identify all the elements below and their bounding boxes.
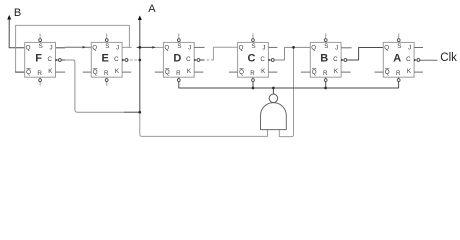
svg-text:C: C [248, 52, 256, 64]
svg-text:B: B [320, 52, 328, 64]
wire: B indicator net, F.Q to up-arrow [9, 20, 25, 48]
svg-text:Q: Q [93, 69, 98, 76]
svg-text:F: F [35, 52, 42, 64]
wire: NAND right input from B.Q junction [279, 47, 293, 136]
svg-text:S: S [324, 43, 328, 50]
wire: C.Q to D.C staircase [200, 47, 238, 60]
svg-text:C: C [333, 56, 338, 63]
pin stub B J stub [341, 47, 352, 49]
flip-flop D (JK) [163, 34, 200, 82]
pin stub B K stub [341, 71, 351, 73]
svg-text:D: D [173, 52, 181, 64]
pin stub D J stub [194, 46, 204, 48]
flip-flop A (JK) [383, 34, 420, 82]
svg-text:Q: Q [311, 44, 316, 51]
flip-flop F (JK) [25, 34, 62, 86]
svg-text:R: R [396, 70, 401, 77]
flip-flop E (JK) [91, 34, 128, 86]
svg-text:E: E [102, 52, 109, 64]
output indicator arrow A [138, 15, 142, 20]
wire: horizontal joining F.C branch to node A vertical [124, 111, 140, 113]
flip-flop C (JK) [238, 34, 275, 82]
pin stub D K stub [194, 71, 203, 73]
svg-text:B: B [14, 7, 21, 19]
svg-text:S: S [105, 43, 109, 50]
svg-text:Q: Q [26, 69, 31, 76]
svg-text:S: S [39, 43, 43, 50]
arrowhead on D.Q wire [152, 46, 155, 49]
pin stub A J stub [414, 47, 423, 49]
svg-text:J: J [408, 44, 411, 51]
arrowhead on E.Q wire [83, 46, 86, 49]
pin stub C Qbar stub [229, 71, 238, 73]
svg-text:Q: Q [26, 44, 31, 51]
pin stub C J stub [268, 46, 277, 48]
NAND gate U1 (inverted output pointing up) [261, 94, 287, 130]
wire: F.Qbar to E.J feedback (left vertical, top line, drop at x129.4) [15, 25, 129, 72]
svg-text:J: J [49, 44, 52, 51]
flip-flop B (JK) [310, 34, 347, 82]
svg-text:Q: Q [384, 44, 389, 51]
svg-text:Q: Q [385, 69, 390, 76]
svg-text:A: A [393, 52, 401, 64]
svg-text:Q: Q [165, 69, 170, 76]
svg-text:C: C [260, 56, 265, 63]
svg-text:A: A [148, 3, 156, 15]
pin stub D Qbar stub [155, 71, 164, 73]
svg-text:J: J [262, 44, 265, 51]
pin stub E Qbar stub [83, 71, 92, 73]
pin stub F K stub [56, 71, 66, 73]
junction dot NAND output junction [272, 87, 275, 90]
svg-text:R: R [250, 70, 255, 77]
junction dot node A / F.C-NAND junction [138, 111, 141, 114]
svg-text:Q: Q [92, 44, 97, 51]
junction dot B.R junction [324, 87, 327, 90]
svg-text:J: J [188, 44, 191, 51]
pin stub B Qbar stub [301, 71, 310, 73]
junction dot node A / E.J-D.Q junction [138, 46, 141, 49]
junction dot B.Q / NAND input junction [292, 46, 295, 49]
svg-text:Q: Q [312, 69, 317, 76]
svg-text:R: R [176, 70, 181, 77]
pin stub A Qbar stub [375, 71, 384, 73]
wire: A.Q to B.C staircase [347, 48, 384, 61]
pin stub C K stub [268, 71, 277, 73]
svg-text:Q: Q [164, 44, 169, 51]
svg-text:Q: Q [239, 69, 244, 76]
svg-text:R: R [323, 70, 328, 77]
wire: E.Q to F.J [56, 46, 92, 49]
wire: E.C branch from node A vertical [126, 59, 140, 61]
svg-text:C: C [186, 56, 191, 63]
junction dot C.R junction [252, 87, 255, 90]
svg-text:Clk: Clk [440, 52, 457, 64]
junction dot node A / E.C junction [138, 59, 141, 62]
svg-text:Q: Q [239, 44, 244, 51]
wire: F.C clock branch (elbow down to y112.2 row) [61, 60, 124, 112]
svg-text:S: S [252, 43, 256, 50]
svg-text:R: R [37, 70, 42, 77]
pin stub A K stub [414, 71, 423, 73]
svg-text:R: R [104, 70, 109, 77]
node A vertical wire (indicator arrow down to junction y112.2) [139, 19, 141, 112]
svg-text:S: S [177, 43, 181, 50]
wire: node A down to NAND left input [140, 112, 268, 136]
svg-text:S: S [397, 43, 401, 50]
wire: B.Q to C.C staircase [274, 47, 310, 60]
svg-text:J: J [116, 44, 119, 51]
pin stub E K stub [122, 71, 131, 73]
wire: D.Q to E.J junction (node A horizontal) [129, 46, 163, 48]
svg-text:C: C [406, 56, 411, 63]
svg-text:C: C [47, 56, 52, 63]
output indicator arrow B [7, 15, 11, 20]
wire: Clk input to A.C [420, 59, 438, 61]
svg-text:C: C [114, 56, 119, 63]
wire: reset line from NAND output to R pins of D,C,B,A [179, 77, 399, 94]
svg-text:J: J [335, 44, 338, 51]
